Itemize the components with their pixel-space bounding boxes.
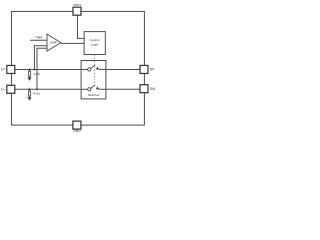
svg-text:GND: GND bbox=[73, 129, 81, 133]
svg-text:4 kΩ: 4 kΩ bbox=[33, 72, 40, 76]
svg-text:Control: Control bbox=[90, 38, 100, 42]
svg-text:4 kΩ: 4 kΩ bbox=[33, 92, 40, 96]
svg-text:REF: REF bbox=[38, 38, 43, 40]
svg-text:DM: DM bbox=[150, 87, 155, 91]
svg-text:VBUS: VBUS bbox=[73, 3, 81, 7]
svg-text:CMP: CMP bbox=[50, 41, 57, 45]
svg-text:DP: DP bbox=[150, 68, 155, 72]
svg-text:Switches: Switches bbox=[88, 93, 100, 97]
svg-text:Logic: Logic bbox=[91, 42, 99, 46]
svg-text:D−: D− bbox=[1, 88, 5, 92]
svg-text:D+: D+ bbox=[1, 68, 5, 72]
